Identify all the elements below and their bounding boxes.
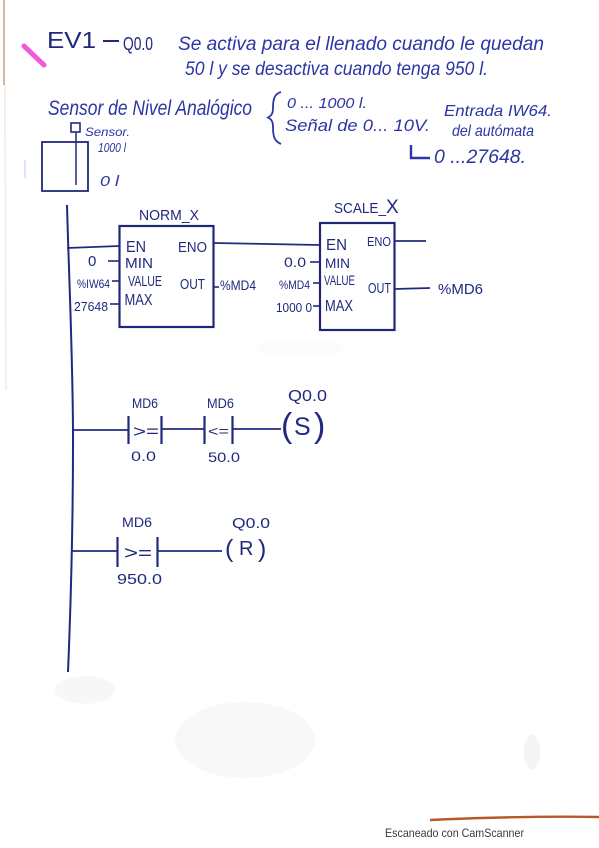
svg-text:MD6: MD6: [207, 395, 234, 411]
contact3 bars: [116, 537, 118, 567]
NORM_X block: [120, 226, 214, 327]
svg-text:MAX: MAX: [325, 298, 353, 315]
svg-text:ENO: ENO: [178, 239, 207, 256]
svg-text:MIN: MIN: [125, 255, 153, 272]
svg-text:): ): [258, 535, 266, 563]
rung 1 wire a: [72, 429, 129, 431]
svg-text:MIN: MIN: [325, 255, 350, 271]
svg-text:950.0: 950.0: [117, 571, 162, 588]
svg-text:EN: EN: [326, 237, 347, 254]
sensor box symbol: [71, 123, 80, 132]
contact2 bars: [203, 416, 205, 444]
svg-text:%IW64: %IW64: [77, 277, 110, 291]
svg-text:>=: >=: [133, 422, 159, 441]
svg-text:%MD6: %MD6: [438, 281, 483, 298]
svg-text:(: (: [225, 535, 234, 563]
svg-text:SCALE_: SCALE_: [334, 200, 387, 217]
title dash: [103, 40, 119, 42]
rung 2 wire a: [72, 550, 118, 552]
svg-text:50 l y se desactiva cuando ten: 50 l y se desactiva cuando tenga 950 l.: [185, 59, 488, 80]
svg-text:%MD4: %MD4: [279, 278, 310, 292]
SCALE OUT wire: [395, 288, 431, 289]
svg-text:del autómata: del autómata: [452, 123, 534, 140]
NORM OUT wire: [214, 286, 220, 288]
svg-text:0: 0: [88, 253, 96, 270]
svg-text:Señal de 0... 10V.: Señal de 0... 10V.: [285, 116, 430, 135]
svg-text:): ): [314, 407, 325, 445]
rung 2 wire b: [158, 550, 223, 552]
contact1 bars: [127, 416, 129, 444]
rung 1 wire c: [233, 428, 282, 430]
svg-text:(: (: [281, 407, 293, 445]
svg-text:50.0: 50.0: [208, 449, 240, 465]
svg-text:MD6: MD6: [132, 395, 158, 411]
svg-text:OUT: OUT: [368, 280, 391, 297]
svg-text:Escaneado con CamScanner: Escaneado con CamScanner: [385, 826, 524, 840]
svg-text:MD6: MD6: [122, 514, 152, 530]
svg-text:EV1: EV1: [47, 27, 96, 53]
NORM EN wire: [67, 246, 120, 248]
svg-text:Q0.0: Q0.0: [123, 34, 153, 54]
svg-text:0.0: 0.0: [284, 254, 306, 270]
svg-text:0 ...27648.: 0 ...27648.: [434, 147, 526, 168]
svg-text:VALUE: VALUE: [128, 273, 162, 290]
svg-text:MAX: MAX: [125, 292, 153, 309]
SCALE ENO wire: [395, 240, 427, 242]
sensor probe wire: [75, 132, 77, 185]
svg-text:R: R: [239, 538, 253, 560]
tank: [42, 142, 88, 191]
left power rail: [67, 205, 73, 672]
svg-text:0.0: 0.0: [131, 448, 156, 464]
svg-text:NORM_X: NORM_X: [139, 207, 199, 224]
svg-text:Entrada IW64.: Entrada IW64.: [444, 103, 552, 120]
svg-text:ENO: ENO: [367, 234, 391, 249]
svg-text:VALUE: VALUE: [324, 272, 355, 288]
svg-text:1000 l: 1000 l: [98, 140, 127, 155]
svg-text:%MD4: %MD4: [220, 277, 256, 293]
svg-text:Sensor.: Sensor.: [85, 125, 130, 139]
L arrow: [411, 145, 430, 158]
svg-text:0 ... 1000 l.: 0 ... 1000 l.: [287, 95, 367, 112]
pink highlighter mark: [24, 46, 44, 65]
svg-text:0 l: 0 l: [100, 173, 120, 190]
svg-text:OUT: OUT: [180, 276, 205, 293]
svg-text:S: S: [294, 413, 311, 441]
svg-text:1000 0: 1000 0: [276, 300, 312, 315]
svg-text:EN: EN: [126, 239, 146, 256]
rung 1 wire b: [162, 428, 205, 430]
svg-text:>=: >=: [124, 543, 152, 563]
wire ENO to SCALE EN: [214, 243, 321, 245]
svg-text:X: X: [386, 197, 399, 218]
brace: [268, 92, 281, 144]
svg-text:Se activa para el llenado cuan: Se activa para el llenado cuando le qued…: [178, 34, 544, 55]
camscanner orange line: [430, 817, 599, 820]
svg-text:<=: <=: [208, 423, 229, 439]
SCALE_X block: [320, 223, 395, 330]
svg-text:Q0.0: Q0.0: [232, 515, 270, 532]
svg-text:27648: 27648: [74, 299, 108, 314]
faint scan smudges: [175, 702, 315, 778]
svg-text:Q0.0: Q0.0: [288, 388, 327, 405]
svg-text:Sensor de Nivel Analógico: Sensor de Nivel Analógico: [48, 97, 252, 120]
